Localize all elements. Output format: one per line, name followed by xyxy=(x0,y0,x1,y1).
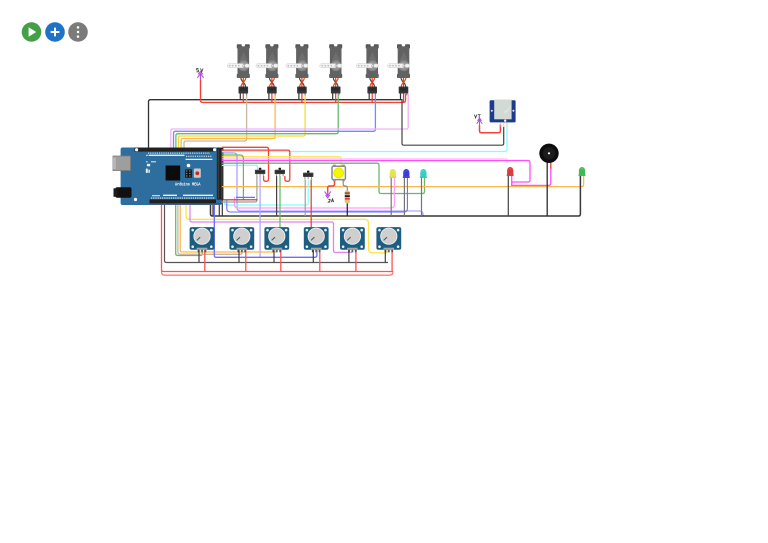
wire: buzzer right pin red stub xyxy=(550,163,552,169)
toolbar play button xyxy=(22,22,42,42)
wire: blue to pot4 xyxy=(214,204,317,257)
servo M6 xyxy=(388,43,411,103)
atmega chip xyxy=(166,166,181,181)
wire: pink to yellow led xyxy=(235,178,395,209)
wire: servo red bus xyxy=(201,80,406,102)
wire: light pink line to red led area xyxy=(223,159,507,163)
wire: yellow to pushbutton xyxy=(223,157,341,167)
wire: switch1 lavender leg xyxy=(259,176,261,257)
wire: switch2 black leg xyxy=(276,176,278,216)
wire: red led anode stub (magenta) xyxy=(511,176,513,186)
pin label rows top xyxy=(146,153,213,162)
usb connector xyxy=(113,156,131,171)
wire: resistor to gnd xyxy=(346,204,348,217)
svg-text:Arduino MEGA: Arduino MEGA xyxy=(175,181,201,187)
led green xyxy=(578,167,585,176)
PIR module xyxy=(490,100,516,128)
wire: pushbutton to resistor xyxy=(343,179,347,191)
wire: red stub bottom header xyxy=(220,199,258,201)
wire: black gnd bus pots xyxy=(165,204,389,263)
bottom header xyxy=(150,199,217,203)
toolbar add button xyxy=(45,22,65,42)
wire: blue led left leg xyxy=(403,178,405,217)
wire: pot gnd stubs xyxy=(199,246,385,263)
servo M3 xyxy=(286,43,309,103)
wire: pot1 red stub xyxy=(204,246,206,272)
wire: cyan to switch1 xyxy=(223,165,258,170)
wire: red to switch1 xyxy=(223,147,269,181)
wire: switch2 green leg xyxy=(279,176,281,240)
slide switch SW1 xyxy=(255,168,265,177)
wire: orange to pot3 xyxy=(180,204,277,252)
wire: servo2 signal (orange) xyxy=(181,94,275,148)
reset button xyxy=(194,169,201,178)
wire: cyan1 from bottom to switch3 xyxy=(225,180,309,205)
servo M5 xyxy=(356,43,379,103)
wire: tan to pot2 xyxy=(178,204,242,254)
wire: gnd stub 2 xyxy=(212,204,214,216)
wire: green net arduino to cyan led xyxy=(223,163,425,193)
wire: switch3 red leg xyxy=(310,180,312,241)
buzzer xyxy=(539,144,558,163)
potentiometer P6 xyxy=(376,227,401,252)
servo M1 xyxy=(227,43,250,103)
led red xyxy=(507,167,514,176)
bottom label rows xyxy=(151,195,215,198)
wire: gnd stub right header xyxy=(219,200,222,216)
wire: cyan led left leg xyxy=(421,178,423,217)
Arduino Mega board xyxy=(113,147,224,205)
wire: green2 header down xyxy=(223,155,243,200)
wire: switch1 gray leg xyxy=(220,176,257,202)
wire: servo3 signal (yellow) xyxy=(178,94,305,148)
toolbar menu button xyxy=(68,22,88,42)
potentiometer P3 xyxy=(264,227,289,252)
wire: servo6 signal (pink) xyxy=(171,94,408,148)
unconnected marker VCC arrow xyxy=(197,68,204,80)
wire: pot5 black mid stub xyxy=(351,246,353,252)
unconnected marker module arrow xyxy=(474,115,482,126)
wire: module cyan to arduino xyxy=(223,127,507,152)
wire: orange bus to green led xyxy=(223,176,584,187)
power jack xyxy=(116,187,132,198)
wire: servo5 signal (blue) xyxy=(174,94,376,148)
header pin dots xyxy=(222,147,224,188)
wire: servo4 signal (green) xyxy=(176,94,338,148)
wire: pushbutton red to ammeter arrow xyxy=(328,179,335,193)
wire: violet header down right xyxy=(223,153,423,216)
led yellow xyxy=(389,169,396,178)
unconnected marker 2A arrow down xyxy=(325,189,334,202)
wire: red to switch2 xyxy=(223,150,290,181)
wire: red bus1 pots xyxy=(162,204,394,272)
wire: pot vcc stubs red xyxy=(246,246,392,272)
potentiometer P1 xyxy=(190,227,215,252)
wire: switch3 gray leg xyxy=(304,180,306,217)
wire: gnd black bus middle xyxy=(211,176,581,217)
wire: module black to servo bus xyxy=(402,100,504,146)
top header xyxy=(135,148,216,152)
wire: module red loop xyxy=(480,125,501,133)
wire: green to pot1 xyxy=(176,204,203,256)
mounting holes xyxy=(135,148,138,151)
potentiometer P2 xyxy=(229,227,254,252)
wire: blue to blue led xyxy=(227,178,408,213)
wire: servo1 signal (tan) xyxy=(184,94,247,148)
pushbutton xyxy=(332,165,345,182)
potentiometer P4 xyxy=(304,227,329,252)
resistor R1 xyxy=(345,191,350,204)
wire: yellow bottom to pot6 xyxy=(186,204,389,253)
servo M2 xyxy=(256,43,279,103)
isp header grid xyxy=(185,170,192,178)
wire: servo black bus to arduino top header xyxy=(149,100,403,148)
led cyan xyxy=(420,169,427,178)
bottom red stripe xyxy=(150,203,222,204)
wire: red led left leg xyxy=(507,176,509,217)
right double header xyxy=(217,148,224,200)
led blue xyxy=(403,169,410,178)
slide switch SW3 xyxy=(303,171,313,180)
logo marks xyxy=(146,164,151,173)
wire: magenta net arduino-redled-buzzer xyxy=(223,161,551,186)
servo M4 xyxy=(320,43,343,103)
wire: buzzer left pin xyxy=(546,163,548,217)
slide switch SW2 xyxy=(275,168,285,177)
wire: yellow led left leg xyxy=(390,178,392,217)
wire: blue stub bottom header xyxy=(236,196,255,198)
wire: violet bottom to pot5 xyxy=(190,204,352,252)
wire: red bottom-left to red bus2 xyxy=(162,271,394,275)
potentiometer P5 xyxy=(340,227,365,252)
